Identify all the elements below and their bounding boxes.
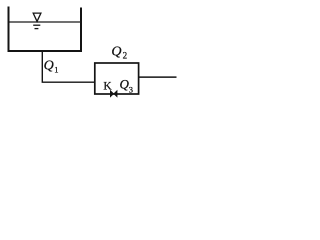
tank right wall (80, 8, 82, 53)
svg-text:Q: Q (111, 44, 121, 59)
svg-text:K: K (103, 80, 112, 92)
svg-text:Q: Q (44, 59, 54, 74)
pipe from tank (vertical then horizontal) (42, 52, 95, 83)
outlet pipe (139, 76, 177, 78)
tank left wall (8, 7, 10, 53)
svg-text:3: 3 (129, 84, 133, 94)
svg-text:1: 1 (54, 64, 58, 74)
water level symbol dash 2 (35, 28, 39, 30)
parallel-pipe loop box (95, 63, 139, 94)
valve K (bowtie) (110, 91, 117, 97)
water level symbol dash 1 (33, 24, 40, 26)
svg-text:2: 2 (123, 51, 128, 61)
water level symbol triangle (33, 13, 41, 21)
water surface line (9, 21, 81, 23)
tank bottom (8, 50, 83, 52)
